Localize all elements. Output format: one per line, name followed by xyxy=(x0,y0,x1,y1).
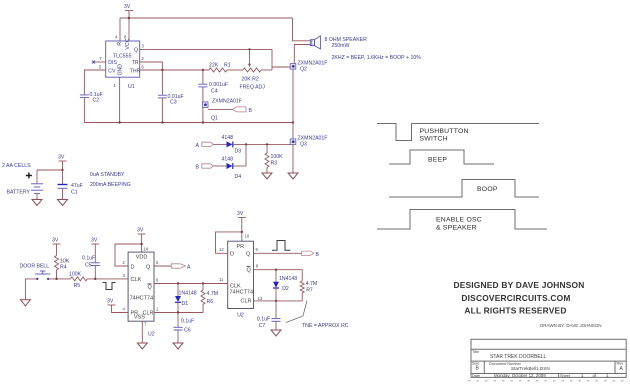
capacitor C5 xyxy=(82,256,100,279)
svg-text:Q: Q xyxy=(148,284,153,290)
svg-text:R6: R6 xyxy=(207,299,214,305)
svg-text:PUSHBUTTON: PUSHBUTTON xyxy=(420,128,469,135)
capacitor C2 xyxy=(80,92,103,123)
svg-text:U1: U1 xyxy=(128,84,135,90)
node loop junction xyxy=(140,243,142,245)
node wiper junction xyxy=(248,48,250,50)
svg-text:11: 11 xyxy=(219,277,224,282)
node TR/THR junction xyxy=(161,69,163,71)
border ticks xyxy=(468,380,630,382)
svg-text:Q3: Q3 xyxy=(300,142,307,148)
wire top rail xyxy=(120,17,293,19)
wire pin8 Qbar row xyxy=(254,269,303,271)
resistor R3 xyxy=(265,144,283,173)
power 3V (U2a VDD) xyxy=(137,228,146,253)
wire THR row xyxy=(140,69,209,71)
svg-text:Title: Title xyxy=(472,350,479,354)
ground (C6) xyxy=(173,343,183,349)
svg-text:R4: R4 xyxy=(60,265,67,271)
potentiometer R2 xyxy=(240,68,273,91)
wire Qbar pin6 row xyxy=(154,283,228,285)
diode D2 1N4148 xyxy=(273,270,297,301)
transistor Q1 ZXMN2A01F xyxy=(202,99,242,123)
svg-text:14: 14 xyxy=(144,247,149,252)
power 3V (U2b PR) xyxy=(237,211,246,241)
timing waveform pushbutton xyxy=(377,124,539,143)
ground (U2a) xyxy=(137,343,147,349)
svg-text:GND: GND xyxy=(117,64,123,76)
svg-text:TNE = APPROX RC: TNE = APPROX RC xyxy=(302,323,349,329)
battery B1 xyxy=(2,163,43,200)
svg-text:0.1uF: 0.1uF xyxy=(181,319,194,325)
timing waveform enable osc xyxy=(377,210,547,232)
svg-text:Sheet: Sheet xyxy=(560,374,571,378)
svg-text:R5: R5 xyxy=(74,283,81,289)
svg-text:THR: THR xyxy=(130,68,141,74)
svg-text:C6: C6 xyxy=(184,328,191,334)
svg-text:DIS: DIS xyxy=(108,60,117,66)
wire pot wiper xyxy=(248,49,251,67)
svg-text:ENABLE OSC: ENABLE OSC xyxy=(436,217,482,224)
transistor Q3 ZXMN2A01F xyxy=(290,136,327,174)
svg-text:250mW: 250mW xyxy=(332,43,350,49)
ground (Q3 source) xyxy=(288,173,298,179)
svg-text:DRAWN BY: DAVE JOHNSON: DRAWN BY: DAVE JOHNSON xyxy=(540,323,602,328)
wire switch left to ground xyxy=(25,279,37,300)
capacitor C1 47uF xyxy=(58,170,83,200)
svg-text:0uA STANDBY: 0uA STANDBY xyxy=(90,172,125,178)
svg-text:2KHZ = BEEP, 1.6KHz = BOOP +: 2KHZ = BEEP, 1.6KHz = BOOP + 10% xyxy=(332,55,422,61)
wire pin11 CLK xyxy=(203,283,228,285)
svg-text:0.1uF: 0.1uF xyxy=(257,316,270,322)
svg-text:4148: 4148 xyxy=(222,135,234,141)
svg-text:2 AA CELLS: 2 AA CELLS xyxy=(2,163,31,169)
transistor Q2 ZXMN2A01F xyxy=(272,61,327,139)
svg-text:200mA BEEPING: 200mA BEEPING xyxy=(90,182,131,188)
wire D tie-high loop U2b xyxy=(216,232,242,253)
node C4 junction xyxy=(202,69,204,71)
svg-text:4.7M: 4.7M xyxy=(306,281,318,287)
note time constant xyxy=(286,301,349,330)
svg-text:TLC555: TLC555 xyxy=(113,54,132,60)
wire pin9 Q to tag xyxy=(254,252,302,254)
svg-text:Rev: Rev xyxy=(617,362,624,366)
switch S1 pushbutton xyxy=(35,271,50,280)
wire GND pin1 xyxy=(119,77,121,122)
wire CLR pin1 row xyxy=(154,312,203,314)
ground (battery) xyxy=(32,200,42,206)
wire battery top xyxy=(37,169,63,171)
node R6 junction xyxy=(202,282,204,284)
wire D4 riser xyxy=(245,144,247,166)
wire pin4 riser xyxy=(119,18,121,41)
node loop junction U2b xyxy=(241,231,243,233)
svg-text:U2: U2 xyxy=(148,332,155,338)
svg-text:C4: C4 xyxy=(211,89,218,95)
svg-text:100K: 100K xyxy=(271,154,284,160)
svg-text:D: D xyxy=(131,264,135,270)
wire DIS stub pin7 xyxy=(92,61,106,64)
wire switch to R5 xyxy=(48,278,70,280)
svg-text:C2: C2 xyxy=(93,98,100,104)
svg-text:10: 10 xyxy=(245,234,250,239)
node D1 junction xyxy=(177,282,179,284)
node B tag (gate Q1) xyxy=(232,107,253,114)
power 3V (R4) xyxy=(52,238,61,256)
svg-text:74HCT74: 74HCT74 xyxy=(130,296,154,302)
svg-text:STAR TREK DOORBELL: STAR TREK DOORBELL xyxy=(490,354,546,360)
title block xyxy=(471,339,626,378)
svg-text:12: 12 xyxy=(219,247,224,252)
node diode junction xyxy=(245,143,247,145)
timing waveform beep xyxy=(389,150,494,164)
wire D tie-high loop U2a xyxy=(115,244,142,266)
svg-text:Q: Q xyxy=(247,267,252,273)
svg-text:U2: U2 xyxy=(237,312,244,318)
svg-text:4.7M: 4.7M xyxy=(207,291,219,297)
node C7 junction xyxy=(275,300,277,302)
svg-text:CV: CV xyxy=(108,68,116,74)
node VCC junction xyxy=(128,17,130,19)
svg-text:C1: C1 xyxy=(71,190,78,196)
node C6 junction xyxy=(177,311,179,313)
capacitor C3 xyxy=(158,70,184,123)
svg-text:BOOP: BOOP xyxy=(477,186,498,193)
svg-text:DISCOVERCIRCUITS.COM: DISCOVERCIRCUITS.COM xyxy=(461,293,570,303)
svg-text:FREQ ADJ: FREQ ADJ xyxy=(240,85,266,91)
svg-text:Q2: Q2 xyxy=(300,67,307,73)
svg-text:Date: Date xyxy=(472,374,480,378)
flip-flop U2b 74HCT74 xyxy=(228,241,254,318)
ground (switch) xyxy=(20,300,30,306)
svg-text:SWITCH: SWITCH xyxy=(420,136,448,143)
node D2 junction xyxy=(275,269,277,271)
ground (C1) xyxy=(58,200,68,206)
speaker LS1 xyxy=(293,18,368,64)
svg-text:D3: D3 xyxy=(235,149,242,155)
capacitor C7 xyxy=(257,301,281,330)
wire pin13 row xyxy=(254,300,303,302)
svg-text:74HCT74: 74HCT74 xyxy=(230,289,254,295)
timer U1 TLC555 xyxy=(106,38,141,90)
svg-text:3V: 3V xyxy=(91,238,98,244)
resistor R7 xyxy=(300,270,317,301)
note designed by xyxy=(453,280,584,316)
capacitor C4 xyxy=(198,70,228,102)
svg-text:CLR: CLR xyxy=(241,299,252,305)
svg-text:4148: 4148 xyxy=(222,157,234,163)
wire VSS pin7 xyxy=(141,321,143,343)
svg-text:20K R2: 20K R2 xyxy=(242,77,259,83)
svg-text:3V: 3V xyxy=(107,299,114,305)
svg-text:DOOR BELL: DOOR BELL xyxy=(20,264,50,270)
svg-text:Q: Q xyxy=(246,252,251,258)
node C1 junction xyxy=(61,169,63,171)
svg-text:VDD: VDD xyxy=(136,255,148,261)
svg-text:A: A xyxy=(187,265,191,271)
flip-flop U2a 74HCT74 xyxy=(128,252,155,338)
wire Q output pin3 xyxy=(140,49,272,70)
svg-text:TR: TR xyxy=(132,60,139,66)
svg-text:1N4148: 1N4148 xyxy=(279,276,297,282)
svg-text:StarTrekBell1.DSN: StarTrekBell1.DSN xyxy=(511,366,550,371)
power 3V (U1 VCC) xyxy=(124,4,133,41)
diode D1 1N4148 xyxy=(175,284,197,313)
node B tag (U2b Q) xyxy=(302,251,320,258)
svg-text:BATTERY: BATTERY xyxy=(7,190,31,196)
svg-text:Q1: Q1 xyxy=(211,116,218,122)
svg-text:100K: 100K xyxy=(69,272,82,278)
resistor R4 xyxy=(55,256,70,279)
wire R5 to CLK xyxy=(87,278,128,280)
node R3 junction xyxy=(266,143,268,145)
wire Q pin5 to tag xyxy=(154,265,171,267)
svg-text:3V: 3V xyxy=(237,211,244,217)
svg-text:ZXMN2A01F: ZXMN2A01F xyxy=(212,99,242,105)
power 3V (U2a PR) xyxy=(107,299,128,313)
note standby xyxy=(90,172,131,188)
svg-text:Q: Q xyxy=(134,48,138,54)
svg-text:0.001uF: 0.001uF xyxy=(209,82,228,88)
svg-text:DESIGNED BY DAVE JOHNSON: DESIGNED BY DAVE JOHNSON xyxy=(453,280,584,290)
svg-text:D2: D2 xyxy=(282,286,289,292)
timing waveform boop xyxy=(389,180,539,198)
svg-text:Q: Q xyxy=(146,264,151,270)
svg-text:D: D xyxy=(230,252,234,258)
power 3V (battery) xyxy=(58,155,67,171)
svg-text:R3: R3 xyxy=(271,161,278,167)
svg-text:PR: PR xyxy=(237,244,245,250)
wire bottom rail xyxy=(84,122,293,124)
node R4 junction xyxy=(55,278,57,280)
svg-text:3V: 3V xyxy=(124,4,131,10)
svg-text:VSS: VSS xyxy=(134,315,145,321)
note positive pulse xyxy=(272,241,291,251)
resistor R6 xyxy=(201,284,218,313)
power 3V (C5) xyxy=(91,238,99,263)
svg-text:R7: R7 xyxy=(306,288,313,294)
resistor R5 xyxy=(69,272,87,290)
note negative pulse xyxy=(103,283,116,290)
svg-text:3V: 3V xyxy=(58,155,65,161)
svg-text:VCC: VCC xyxy=(125,38,131,49)
resistor R1 xyxy=(209,63,243,73)
svg-text:R1: R1 xyxy=(224,63,231,69)
wire CV pin5 xyxy=(84,70,105,94)
svg-text:3V: 3V xyxy=(52,238,59,244)
svg-text:A: A xyxy=(196,143,200,149)
diode D4 4148 xyxy=(213,157,246,180)
svg-text:BEEP: BEEP xyxy=(428,157,447,164)
diode D3 4148 xyxy=(213,135,290,155)
node A tag (to D3) xyxy=(196,142,214,149)
node C5 junction xyxy=(94,278,96,280)
node B tag (to D4) xyxy=(196,164,214,171)
svg-text:C3: C3 xyxy=(170,100,177,106)
svg-text:D1: D1 xyxy=(182,301,189,307)
svg-text:0.1uF: 0.1uF xyxy=(82,256,95,262)
svg-text:B: B xyxy=(249,108,253,114)
svg-text:C5: C5 xyxy=(85,263,92,269)
svg-text:R: R xyxy=(117,42,123,46)
svg-text:22K: 22K xyxy=(209,63,219,69)
svg-text:47uF: 47uF xyxy=(71,183,83,189)
svg-text:C7: C7 xyxy=(259,323,266,329)
svg-text:3V: 3V xyxy=(137,228,144,234)
wire TR pin2 xyxy=(140,62,163,70)
capacitor C6 xyxy=(174,313,195,344)
ground (C7) xyxy=(271,330,281,336)
svg-text:& SPEAKER: & SPEAKER xyxy=(436,225,477,232)
svg-text:13: 13 xyxy=(258,296,263,301)
svg-text:ALL RIGHTS RESERVED: ALL RIGHTS RESERVED xyxy=(464,306,566,316)
svg-text:1N4148: 1N4148 xyxy=(179,291,197,297)
svg-text:CLK: CLK xyxy=(131,277,142,283)
svg-text:D4: D4 xyxy=(235,174,242,180)
node rail junctions xyxy=(118,121,294,123)
ground (R3) xyxy=(262,173,272,179)
svg-text:Monday, October 12, 2009: Monday, October 12, 2009 xyxy=(494,373,546,378)
svg-text:B: B xyxy=(196,164,200,170)
node A tag (U2a Q) xyxy=(171,264,191,271)
svg-text:B: B xyxy=(316,252,320,258)
